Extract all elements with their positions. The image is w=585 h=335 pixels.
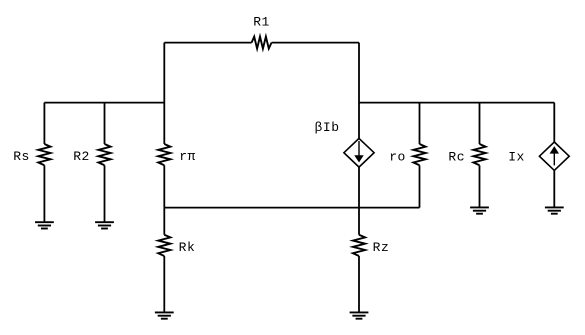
wire : R2 bottom lead — [104, 165, 106, 222]
dependent current source bIb (diamond) — [344, 138, 374, 167]
wire : Ix bottom lead — [553, 170, 555, 207]
wire : Rk bottom lead — [163, 256, 165, 312]
wire : Rs bottom lead — [43, 165, 45, 222]
wire : right bus — [359, 102, 554, 104]
wire : bottom bus — [164, 207, 419, 209]
svg-text:Rz: Rz — [373, 240, 390, 255]
wire : rpi bottom lead — [163, 165, 165, 207]
svg-text:Rc: Rc — [448, 149, 465, 164]
wire : Rz bottom lead — [358, 256, 360, 312]
svg-text:Rs: Rs — [13, 149, 30, 164]
wire : R1 top-right lead — [272, 42, 360, 44]
Ix arrow — [553, 153, 555, 165]
independent current source Ix (diamond) — [539, 142, 569, 170]
wire : rpi top lead from R1 corner through bus — [163, 43, 165, 144]
resistor Rz — [353, 235, 365, 256]
resistor Rs — [38, 144, 50, 165]
resistor Rk — [158, 235, 170, 256]
svg-text:rπ: rπ — [179, 149, 196, 164]
wire : R1 top-left lead — [164, 42, 251, 44]
ground under R2 — [95, 221, 114, 223]
wire : Ix top lead — [553, 103, 555, 142]
bIb arrow — [358, 141, 360, 156]
ground under Rk — [155, 311, 174, 313]
resistor ro — [413, 144, 425, 165]
wire : Rs top lead — [43, 103, 45, 144]
wire : bIb top lead from R1 corner through bus — [358, 43, 360, 139]
ground under Rc — [470, 206, 489, 208]
wire : Rc bottom lead — [479, 165, 481, 207]
resistor R2 — [98, 144, 110, 165]
resistor rpi — [158, 144, 170, 165]
wire : ro top lead — [419, 103, 421, 144]
ground under Rs — [35, 221, 54, 223]
svg-text:Ix: Ix — [508, 149, 525, 164]
resistor Rc — [473, 144, 485, 165]
resistor R1 — [252, 37, 272, 49]
svg-text:ro: ro — [389, 149, 406, 164]
ground under Rz — [350, 311, 369, 313]
wire : left bus — [44, 102, 164, 104]
svg-text:βIb: βIb — [315, 120, 340, 135]
svg-text:R2: R2 — [73, 149, 90, 164]
wire : bIb bottom lead down through bottom bus to Rz — [358, 167, 360, 235]
wire : R2 top lead — [104, 103, 106, 144]
ground under Ix — [545, 206, 564, 208]
wire : ro bottom lead to bottom bus — [419, 165, 421, 207]
wire : Rc top lead — [479, 103, 481, 144]
wire : Rk top lead — [163, 208, 165, 235]
svg-text:Rk: Rk — [179, 240, 196, 255]
svg-text:R1: R1 — [253, 15, 270, 30]
